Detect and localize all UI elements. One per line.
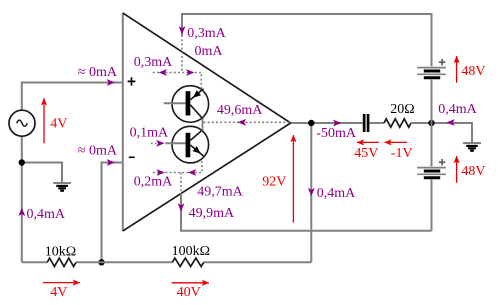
svg-text:0,4mA: 0,4mA — [438, 102, 477, 117]
capacitor C1 — [363, 114, 370, 132]
wire: branch to input ground — [22, 163, 62, 183]
wire: AC source bottom down left rail to bottom feedback rail — [21, 136, 23, 262]
node: output junction dot — [308, 120, 314, 126]
current arrowhead left on Q2 emitter tee — [188, 169, 196, 176]
wire: solid continuation to negative supply rail — [181, 193, 432, 231]
voltage arrow 4V (across R1) — [43, 282, 80, 284]
wire: bottom rail (left rail to R1, R1 to R2, R2 to output riser) — [22, 261, 312, 263]
svg-text:0mA: 0mA — [195, 44, 224, 59]
svg-text:0,4mA: 0,4mA — [27, 207, 66, 222]
wire (dashed): collector current path to output apex — [203, 121, 289, 123]
wire (dashed): Q1 emitter bias tee — [153, 73, 202, 89]
voltage arrow 48V (bottom battery) — [456, 156, 458, 183]
transistor Q1 (PNP, upper) — [164, 86, 209, 123]
wire: battery B2 to negative rail — [431, 179, 433, 231]
svg-text:49,6mA: 49,6mA — [217, 103, 263, 118]
voltage arrow 40V (across R2) — [172, 282, 209, 284]
current arrow 0.3mA down — [179, 26, 186, 34]
svg-text:48V: 48V — [461, 164, 485, 179]
pin label: + noninverting input — [128, 77, 136, 85]
battery B1 +48V (top) — [417, 59, 446, 78]
wire: riser from bottom rail up to output node — [310, 123, 312, 262]
pin label: - inverting input — [129, 156, 135, 158]
current arrow into - input — [107, 159, 115, 166]
svg-text:10kΩ: 10kΩ — [45, 244, 76, 259]
svg-text:-1V: -1V — [391, 146, 413, 161]
current arrowhead right on Q2 emitter tee — [157, 169, 165, 176]
wire (dashed): bias current path from top rail down into op-amp — [181, 35, 183, 73]
svg-text:49,9mA: 49,9mA — [189, 206, 235, 221]
current arrow 0,4mA down on output riser — [308, 188, 315, 196]
svg-text:0,1mA: 0,1mA — [130, 125, 169, 140]
battery B2 -48V (bottom) — [417, 159, 446, 178]
resistor R2 100kOhm — [172, 258, 203, 266]
svg-text:≈ 0mA: ≈ 0mA — [78, 65, 118, 80]
node: junction dot feedback / bottom rail — [98, 259, 104, 265]
wire: battery B1 to supply node — [431, 79, 433, 123]
wire: collector bus joining Q1/Q2 collectors — [202, 119, 204, 131]
current arrowhead left at Q1 base region — [159, 69, 167, 76]
svg-text:40V: 40V — [177, 285, 201, 300]
svg-text:48V: 48V — [461, 64, 485, 79]
svg-text:49,7mA: 49,7mA — [197, 184, 243, 199]
wire: capacitor to load resistor — [369, 122, 384, 124]
current arrowhead right toward Q1 emitter — [186, 69, 194, 76]
voltage arrow 4V (input) — [43, 98, 45, 143]
current arrow -50mA right — [333, 120, 341, 127]
voltage arrow 45V (left) — [357, 141, 379, 143]
wire: AC source top to op-amp + input — [22, 83, 122, 111]
node: junction dot supply mid node — [428, 120, 434, 126]
voltage arrow 92V — [292, 135, 294, 223]
current arrow 49,9mA down — [178, 203, 185, 211]
voltage arrow 48V (top battery) — [456, 56, 458, 83]
svg-text:-50mA: -50mA — [316, 126, 357, 141]
ground (input side) — [53, 183, 71, 191]
wire: feedback wire to op-amp − input — [102, 163, 122, 263]
resistor R3 20Ohm — [384, 119, 411, 127]
resistor R1 10kOhm — [47, 258, 76, 266]
svg-text:92V: 92V — [262, 175, 286, 190]
wire: output from apex to capacitor — [291, 122, 363, 124]
svg-text:45V: 45V — [354, 146, 378, 161]
wire: supply node down to battery B2 — [431, 123, 433, 166]
transistor Q2 (NPN, lower) — [165, 126, 208, 163]
AC source V1 — [9, 110, 35, 136]
svg-text:4V: 4V — [50, 285, 67, 300]
current arrow into + input — [107, 79, 115, 86]
current arrow 0,4mA up on left rail — [18, 208, 25, 216]
wire (dashed): emitter current drop to negative rail — [180, 173, 182, 194]
svg-text:0,3mA: 0,3mA — [134, 55, 173, 70]
svg-text:0,3mA: 0,3mA — [187, 26, 226, 41]
op-amp U1 triangle body — [123, 13, 291, 231]
wire: load resistor to supply node and output ground — [411, 123, 472, 143]
node: junction dot at AC source bottom / ground branch — [19, 159, 25, 165]
ground (output side) — [463, 143, 481, 151]
svg-text:4V: 4V — [50, 117, 67, 132]
current arrowhead 0.4mA left (from ground) — [446, 119, 454, 126]
current arrow into Q2 base (dashed stub) — [151, 142, 157, 144]
svg-text:100kΩ: 100kΩ — [172, 244, 210, 259]
current arrowhead left on collector path — [238, 119, 246, 126]
voltage arrow -1V (left) — [385, 141, 408, 143]
svg-text:20Ω: 20Ω — [390, 102, 414, 117]
svg-text:0,4mA: 0,4mA — [317, 186, 356, 201]
wire (dashed): Q2 emitter tee — [153, 161, 202, 173]
wire: top supply rail from internal bias tap to +48V battery — [182, 14, 432, 66]
svg-text:0,2mA: 0,2mA — [134, 175, 173, 190]
svg-text:≈ 0mA: ≈ 0mA — [78, 143, 118, 158]
